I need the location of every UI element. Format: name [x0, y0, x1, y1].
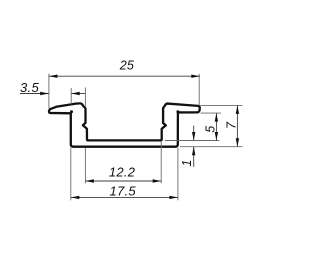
svg-text:12.2: 12.2: [109, 165, 136, 180]
dimension 7: top arrow: [236, 105, 239, 114]
dimension 25: dimension line: [49, 75, 200, 77]
dimension 25: left arrow: [49, 75, 58, 78]
dimension 17.5: right arrow: [169, 196, 178, 199]
svg-text:5: 5: [203, 126, 217, 133]
dimension 1: upper tail with down arrow: [193, 126, 195, 141]
dimension 12.2: dimension line: [85, 180, 161, 182]
dimension 3.5: dimension line with tail (left, arrow outside pointing right): [20, 93, 49, 95]
svg-text:25: 25: [119, 59, 134, 73]
svg-text:17.5: 17.5: [109, 183, 136, 198]
dimension 3.5: extension line at outer wall: [70, 88, 72, 104]
left wing-wall junction knob: [70, 110, 73, 113]
dimension 12.2: extension line left: [84, 148, 86, 184]
dimension 7: extension line top: [201, 104, 243, 106]
dimension 5: bottom arrow: [215, 132, 218, 141]
inner-bottom extension line (shared by 5 and 1): [165, 140, 219, 142]
svg-text:3.5: 3.5: [20, 80, 39, 95]
dimension 3.5: right tail (arrow outside pointing left): [71, 93, 85, 95]
dimension 12.2: left arrow: [85, 179, 94, 182]
dimension 17.5: extension line right: [177, 148, 179, 200]
dimension 3.5: extension line at inner rim: [84, 88, 86, 108]
dimension 5: top arrow: [215, 113, 218, 122]
dimension 25: extension line left: [48, 74, 50, 109]
svg-text:1: 1: [180, 160, 194, 167]
dimension 25: right arrow: [191, 75, 200, 78]
dimension 7: bottom arrow: [236, 138, 239, 147]
dimension 17.5: left arrow: [71, 196, 80, 199]
dimension 12.2: right arrow: [153, 179, 162, 182]
dimension 7: dimension line: [236, 105, 238, 146]
right wing-wall junction knob: [176, 110, 179, 113]
dimension 17.5: dimension line: [71, 196, 178, 198]
dimension 12.2: extension line right: [160, 142, 162, 184]
profile outline (aluminium channel cross-section): [49, 103, 200, 146]
dimension 5: dimension line: [215, 113, 217, 140]
dimension 5: extension line top (wing underside): [201, 112, 221, 114]
dimension 25: extension line right: [198, 74, 200, 105]
outer-bottom extension line (shared by 7 and 1): [180, 146, 243, 148]
dimension 17.5: extension line left: [70, 148, 72, 200]
dimension 1: lower tail with up arrow: [193, 147, 195, 167]
svg-text:7: 7: [225, 121, 239, 129]
